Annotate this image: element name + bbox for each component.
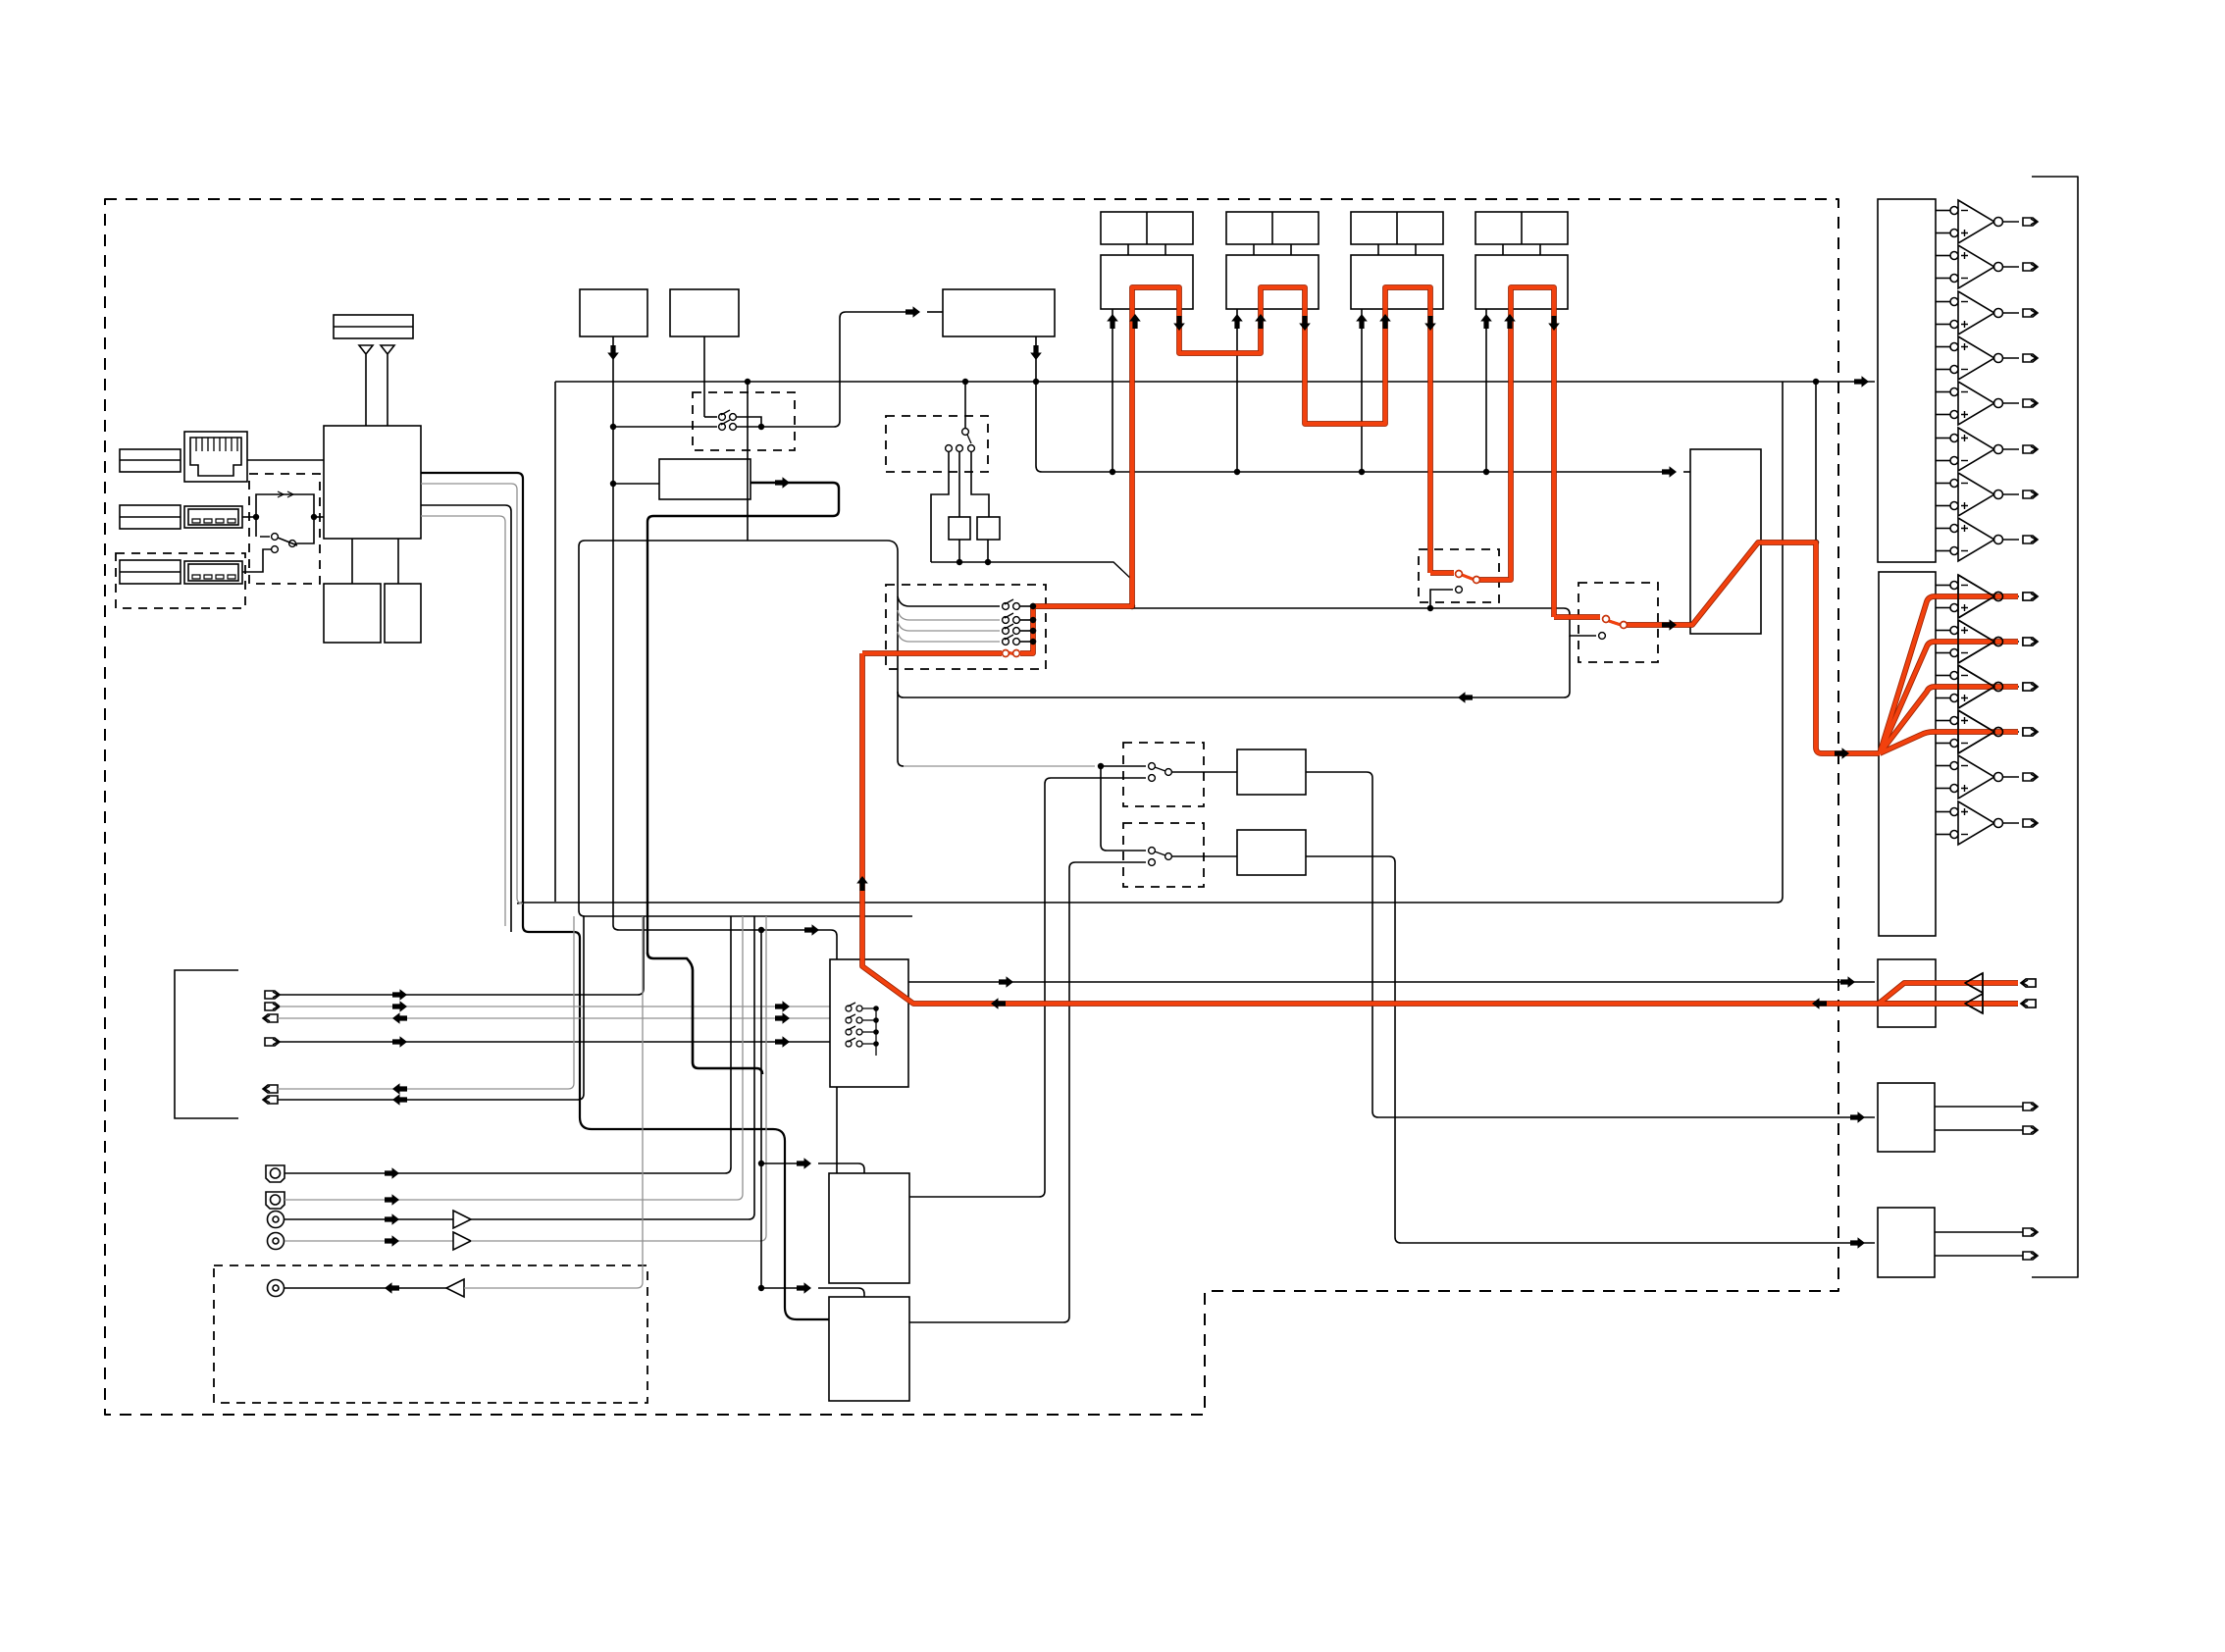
- red selector moving contact: [1007, 652, 1016, 654]
- block2 arrow feed: [761, 1287, 801, 1289]
- bridge spare contact g3-g4: [1430, 590, 1453, 608]
- selector row 1: [898, 596, 1000, 606]
- block1 arrow feed: [761, 1162, 801, 1164]
- surround amp channel 5: [1936, 755, 2038, 799]
- selector collect dots: [1030, 603, 1036, 645]
- red selected output + main riser + relay chain: [1033, 287, 1430, 606]
- optical jack 1: [266, 1165, 285, 1182]
- video selector switch row C: [846, 1026, 876, 1035]
- surround amp channel 1: [1936, 575, 2038, 618]
- surround amp channel 3: [1936, 665, 2038, 708]
- red sb switch to volume box: [1624, 542, 1880, 753]
- zone A out 2: [1935, 1129, 2023, 1131]
- usb jack 1: [184, 506, 242, 528]
- optical jack 2: [266, 1192, 285, 1209]
- coax line 1 with buffer: [285, 1218, 453, 1220]
- usb upper bypass path: [256, 494, 314, 517]
- soc output staircase line 1 (speaker thick path): [421, 473, 829, 1319]
- main signal bus y=389: [555, 381, 1875, 383]
- red into sb switch: [1554, 615, 1600, 619]
- junction dots speaker drive line: [1033, 379, 1819, 475]
- zone A block: [1878, 1083, 1935, 1152]
- rj45 faceplate: [120, 449, 181, 472]
- red portable input line: [862, 653, 2018, 1004]
- wire rj45 to soc: [247, 459, 324, 461]
- surround amp channel 6: [1936, 801, 2038, 845]
- relay group 4 upper dual box: [1475, 212, 1568, 244]
- digital if vertical to rec1: [909, 784, 1045, 1197]
- program switch row2: [613, 426, 717, 428]
- relay group 2 upper dual box: [1226, 212, 1319, 244]
- display driver box: [659, 459, 750, 499]
- relay group 3 links: [1377, 244, 1379, 255]
- zone B out 2: [1935, 1255, 2023, 1257]
- display driver output loop: [647, 483, 839, 953]
- main amp channel 6: [1936, 428, 2038, 471]
- headphone amp outlines: [1965, 973, 1983, 993]
- program switch dashed box: [693, 392, 795, 450]
- antenna 2: [381, 345, 394, 426]
- antenna 1: [359, 345, 373, 426]
- arrow into power amp: [1854, 376, 1869, 387]
- main amp channel 3: [1936, 291, 2038, 335]
- soc output staircase line 4: [421, 516, 505, 926]
- surround amp 2 outline: [1958, 620, 1994, 663]
- video selector switch row D: [846, 1038, 876, 1047]
- optical line 1: [285, 916, 731, 1173]
- relay group 2 pins & arrows: [1236, 309, 1238, 472]
- RED HIGHLIGHT PATH: [856, 287, 2038, 1013]
- arrow left portable mid: [991, 998, 1006, 1009]
- soc sub box A: [324, 584, 381, 643]
- surround amp 1 outline: [1958, 575, 1994, 618]
- red selected output + main riser + relay chain: [1033, 287, 1430, 606]
- arrow right red into surround amp: [1835, 748, 1849, 759]
- arrow down from control box to bus: [1030, 345, 1042, 360]
- soc output staircase line 3: [421, 505, 511, 932]
- surround amp block: [1879, 572, 1936, 936]
- tuner selector lever: [962, 429, 969, 436]
- rec box 2 out to zoneB vertical: [1306, 856, 1395, 1237]
- usb1 wire to node: [242, 516, 256, 518]
- zone B block: [1878, 1208, 1935, 1277]
- usb2 dashed enclosure: [116, 553, 245, 608]
- red selector moving contact: [1007, 652, 1016, 654]
- usb switch lower contact: [272, 546, 279, 553]
- relay group 4 links: [1502, 244, 1504, 255]
- rec out source line: [904, 765, 1095, 767]
- tuner module squares: [949, 517, 970, 540]
- bus drop to volume feed vertical x=1817: [517, 382, 1783, 903]
- red headphone row2: [1879, 1001, 2018, 1007]
- tuner feed from bus: [964, 382, 966, 428]
- zone A feed line: [1372, 1111, 1875, 1117]
- red bridge g3 to g4: [1430, 570, 1454, 576]
- soc sub box B: [385, 584, 421, 643]
- usb switch lever: [256, 517, 270, 537]
- rec select switch 2 dashed box: [1123, 823, 1204, 887]
- selector row 3: [898, 621, 1000, 631]
- relay group 4 pins & arrows: [1485, 309, 1487, 472]
- tuner outputs to junction line: [959, 540, 988, 562]
- selector row 2: [898, 610, 1000, 620]
- video out jack row 4: [265, 1038, 280, 1046]
- arrow left portable near phones: [1812, 998, 1827, 1009]
- program switch row1: [704, 416, 717, 418]
- usb faceplate 1: [120, 505, 181, 529]
- video selector switch row B: [846, 1014, 876, 1023]
- surround amp channel 4: [1936, 710, 2038, 753]
- usb faceplate 2: [120, 560, 181, 584]
- selected source line to bridge contacts: [1033, 608, 1596, 636]
- block2 out loop to x1090: [909, 1316, 1069, 1322]
- relay group 1 pins & arrows: [1112, 309, 1113, 472]
- record selector dashed box: [886, 585, 1046, 669]
- timer down wire: [703, 336, 705, 417]
- arrow on return line y=711: [1458, 692, 1473, 703]
- speaker drive line y=481: [1036, 336, 1666, 472]
- arrow up portable: [856, 876, 868, 891]
- junction dots program: [610, 424, 764, 487]
- tiny arrows on bypass: [278, 491, 293, 497]
- red collect column: [1020, 606, 1033, 653]
- video input selector box: [830, 959, 908, 1087]
- rec box 1: [1237, 749, 1306, 795]
- video selector collect dots: [873, 1006, 879, 1047]
- selector row 4: [898, 632, 1000, 642]
- relay group 4 lower box: [1475, 255, 1568, 309]
- wifi bt module box: [334, 315, 413, 338]
- rec box 2: [1237, 830, 1306, 875]
- usb jack 2: [184, 561, 242, 584]
- soc output staircase line 2: [421, 484, 523, 903]
- relay group 3 pins & arrows: [1361, 309, 1363, 472]
- relay group 1 links: [1127, 244, 1129, 255]
- rec switch 2 output to rec box 2: [1172, 855, 1237, 857]
- branch from rec source down to switch2: [1101, 766, 1146, 851]
- mid feed line y=948: [804, 924, 819, 936]
- main amp channel 5: [1936, 382, 2038, 425]
- video out jack row 1: [265, 991, 280, 999]
- MAIN LAYER: [105, 177, 2078, 1415]
- red fan to surround amps: [1880, 596, 2018, 753]
- video selector switch row A: [846, 1003, 876, 1056]
- main amp channel 4: [1936, 336, 2038, 380]
- thick feed staircase to blocks: [647, 953, 762, 1074]
- arrows on red path: [856, 619, 1849, 1009]
- main amp channel 7: [1936, 473, 2038, 516]
- node dots: [253, 514, 317, 520]
- red switch contacts circles: [1003, 571, 1628, 657]
- display driver feed: [613, 483, 659, 485]
- red bridge g3 to g4: [1430, 571, 1454, 575]
- main amp channel 2: [1936, 245, 2038, 288]
- left AV jacks section: [175, 916, 908, 1403]
- relay group 3 lower box: [1351, 255, 1443, 309]
- clock box: [580, 289, 647, 336]
- rec switch 1: [1101, 765, 1146, 767]
- right output section: [1854, 199, 2038, 1277]
- dsp to bottom dac line: [747, 382, 749, 541]
- line y=481 tail into volume box: [1683, 471, 1690, 473]
- portable line with buffer: [285, 1287, 446, 1289]
- zone A out 1: [1935, 1106, 2023, 1108]
- relay group 2 lower box: [1226, 255, 1319, 309]
- arrow right into volume red: [1662, 619, 1677, 631]
- bus left end drop x=566: [554, 382, 556, 902]
- headphone feed line: [908, 981, 1875, 983]
- outer chassis dashed border: [105, 199, 1838, 1415]
- monitor out bracket: [175, 970, 238, 1118]
- red selector bottom row: [862, 651, 1002, 655]
- volume dsp box: [1690, 449, 1761, 634]
- red portable input line: [862, 653, 2018, 1004]
- bridge switch dashed box g3g4: [1419, 549, 1499, 602]
- arrows over red (relay pins): [1129, 314, 1560, 331]
- dsp main box: [579, 541, 912, 916]
- black riser from volume out to amp feed: [1815, 382, 1817, 542]
- surround amp channel 2: [1936, 620, 2038, 663]
- surround amp 4 outline: [1958, 710, 1994, 753]
- rec select switch 1 dashed box: [1123, 743, 1204, 806]
- rj45 jack: [184, 432, 247, 482]
- system control box: [943, 289, 1055, 336]
- main power amp block: [1878, 199, 1936, 562]
- tuner module verticals: [931, 452, 989, 562]
- headphone amp 2: [1965, 994, 1983, 1013]
- relay group 1 lower box: [1101, 255, 1193, 309]
- relay group 2 links: [1253, 244, 1255, 255]
- surround amp 3 outline: [1958, 665, 1994, 708]
- portable jack: [268, 1280, 285, 1297]
- rec switch 2 second input from block2: [1069, 862, 1146, 1316]
- main amp channel 1: [1936, 200, 2038, 243]
- tuner switch dashed box: [886, 416, 988, 472]
- timer box: [670, 289, 739, 336]
- speaker relay groups: [1030, 212, 1819, 475]
- node to soc wire: [314, 516, 324, 518]
- video in jack row 3: [263, 1014, 278, 1022]
- amp outlines over red: [1958, 575, 2038, 1013]
- rec line junction dot: [1098, 763, 1104, 769]
- portable in dashed box: [214, 1265, 647, 1403]
- top middle control section: [580, 289, 1132, 1173]
- coax jack 2: [268, 1233, 285, 1250]
- left network/usb interface section: [116, 315, 829, 1319]
- rec switch 2: [1149, 848, 1156, 854]
- volume / switch mid-right section: [1419, 382, 1819, 662]
- headphone stub 1: [2021, 979, 2036, 987]
- DSP core section: [579, 379, 1875, 1316]
- usb switch dashed box: [249, 474, 320, 584]
- rec switch 1 second input from digital block: [1045, 778, 1146, 784]
- red collect column: [1020, 606, 1033, 653]
- red switch contacts circles: [1003, 571, 1628, 657]
- coax jack 1: [268, 1212, 285, 1228]
- soc legs: [352, 539, 398, 584]
- audio in jack row 6: [263, 1096, 278, 1104]
- red selector bottom row: [862, 650, 1002, 656]
- bottom center section: [647, 924, 1069, 1401]
- zone B out 1: [1935, 1231, 2023, 1233]
- coax line 2 with buffer: [285, 1240, 453, 1242]
- audio in jack row 5: [263, 1085, 278, 1093]
- rec box 1 out to zoneA vertical: [1306, 772, 1372, 1111]
- rec switch 1 output to rec box 1: [1172, 771, 1237, 773]
- tuner contacts: [946, 445, 953, 452]
- right edge bracket: [2032, 177, 2078, 1277]
- return line y=711: [898, 636, 1570, 697]
- red headphone row1: [1879, 983, 2018, 1004]
- selector collect dots over red: [1030, 603, 1036, 645]
- red sb switch to volume box: [1624, 542, 1880, 753]
- headphone stub 2: [2021, 1000, 2036, 1007]
- tuner junction line: [931, 562, 1132, 606]
- red headphone row2: [1879, 1002, 2018, 1006]
- red fan to surround amps: [1880, 596, 2018, 753]
- network SoC box: [324, 426, 421, 539]
- dac block 1: [829, 1173, 909, 1283]
- arrow into volume box (upper): [1662, 466, 1677, 478]
- red into sb switch: [1554, 614, 1600, 620]
- clock down wire: [613, 336, 837, 1173]
- red headphone row1: [1879, 983, 2018, 1004]
- dac block 2: [829, 1297, 909, 1401]
- zone B feed line: [1395, 1237, 1875, 1243]
- arrow into system control box: [906, 306, 920, 318]
- main amp channel 8: [1936, 518, 2038, 561]
- relay group 1 upper dual box: [1101, 212, 1193, 244]
- sb switch dashed box: [1578, 583, 1658, 662]
- selector spine from dsp top corner: [887, 541, 904, 766]
- video out jack row 2: [265, 1003, 280, 1010]
- headphone amp 1: [1965, 973, 1983, 993]
- optical line 2: [285, 916, 743, 1200]
- relay group 3 upper dual box: [1351, 212, 1443, 244]
- headphone block: [1878, 959, 1936, 1027]
